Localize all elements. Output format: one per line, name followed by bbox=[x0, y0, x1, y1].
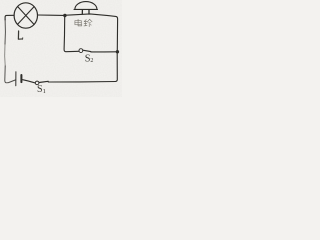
wire bbox=[5, 66, 15, 83]
wire bbox=[67, 14, 118, 51]
character 电 bbox=[75, 19, 82, 26]
wire bbox=[23, 80, 36, 83]
wire bbox=[38, 14, 64, 16]
node A bbox=[63, 14, 66, 17]
switch S1 pivot bbox=[35, 81, 39, 85]
lamp L bbox=[14, 3, 37, 28]
wire bbox=[5, 15, 14, 20]
wire bbox=[64, 17, 79, 52]
electric bell leg 2 bbox=[88, 10, 90, 14]
battery cell: long plate bbox=[15, 72, 17, 86]
label L (drawn strokes) bbox=[18, 31, 22, 39]
switch S1 lever bbox=[39, 81, 48, 82]
wire bbox=[48, 81, 115, 84]
wire bbox=[91, 51, 116, 53]
wire bbox=[115, 54, 117, 82]
character 铃 bbox=[84, 19, 92, 26]
electric bell dome bbox=[75, 2, 97, 10]
label 电铃 (hand-drawn strokes) bbox=[75, 19, 92, 26]
wire bbox=[4, 44, 7, 66]
switch S2 pivot bbox=[79, 49, 83, 53]
node B bbox=[116, 50, 119, 53]
wire bbox=[4, 19, 6, 44]
switch S2 lever bbox=[83, 50, 91, 51]
electric bell base line bbox=[74, 8, 98, 10]
battery cell: short plate bbox=[20, 75, 22, 82]
paper noise bbox=[0, 0, 122, 97]
electric bell leg 1 bbox=[81, 10, 83, 14]
